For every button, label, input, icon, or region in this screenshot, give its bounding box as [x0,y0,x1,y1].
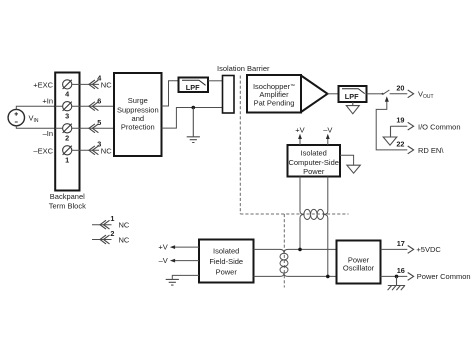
wire LPF2 to switch [367,93,383,95]
junction node [192,106,196,110]
isochopper amplifier U2 [247,75,328,113]
pin 17 +5VDC [381,239,442,254]
transformer T2 (field-side) primary winding and leads [254,249,285,276]
svg-text:2: 2 [65,134,69,143]
+V arrow (computer side) [295,126,304,146]
-V arrow (computer side) [323,126,332,146]
pin 22 RD EN [396,139,444,155]
svg-text:NC: NC [119,235,130,244]
svg-text:Power Common: Power Common [417,272,471,281]
surge suppression block U1 [114,73,162,156]
svg-text:–In: –In [43,129,53,138]
isolation barrier dashed line (vertical lower) [283,214,285,288]
switch S1 [382,90,408,95]
pin 2 NC stub [92,229,130,244]
wire surge upper output to LPF1 [162,81,179,106]
svg-text:Protection: Protection [121,123,155,132]
terminal 3 [55,102,79,121]
svg-text:LPF: LPF [186,83,200,92]
svg-text:17: 17 [397,239,405,248]
junction node bottom wire [326,275,330,279]
svg-text:NC: NC [101,147,112,156]
svg-text:NC: NC [119,221,130,230]
svg-text:3: 3 [65,111,69,120]
terminal 2 [55,124,79,143]
svg-text:22: 22 [396,139,404,148]
isolated field-side power U4 [199,240,254,283]
svg-text:+In: +In [42,96,53,105]
svg-text:–EXC: –EXC [33,146,53,155]
-V arrow (field side) [159,256,199,265]
svg-text:+EXC: +EXC [33,80,53,89]
isolated common triangle under LPF2 [346,102,359,114]
svg-text:Isolation Barrier: Isolation Barrier [217,64,270,73]
svg-text:+V: +V [295,126,304,135]
power oscillator U5 [337,241,381,284]
svg-text:Isolated: Isolated [213,246,239,255]
svg-text:Field-Side: Field-Side [209,257,243,266]
wire amplifier to LPF2 [328,93,339,95]
terminal 4 [63,80,80,99]
pin 6 wire to surge block [79,97,114,111]
voltage source VIN [8,109,39,125]
svg-text:NC: NC [101,81,112,90]
svg-text:Power: Power [303,167,325,176]
filter LPF2 [339,86,367,102]
isolation barrier dashed line (vertical upper) [239,76,241,215]
transformer T2 secondary winding and leads [284,249,337,276]
pin 5 wire to surge block [79,118,114,133]
svg-text:Oscillator: Oscillator [343,264,375,273]
svg-text:+5VDC: +5VDC [416,245,441,254]
svg-text:16: 16 [397,266,405,275]
junction node pin 16 [395,275,399,279]
terminal 1 [63,146,80,165]
svg-text:LPF: LPF [345,92,359,101]
pin 4 NC stub [79,73,112,89]
pin 16 Power Common [381,266,471,281]
svg-text:+V: +V [158,243,167,252]
svg-text:Suppression: Suppression [117,105,159,114]
transformer T1 secondary winding/leads [300,215,328,277]
chassis ground at pin 16 [388,276,406,290]
pin 19 I/O Common [391,116,461,132]
svg-text:–V: –V [159,256,168,265]
svg-text:5: 5 [97,118,101,127]
svg-text:1: 1 [110,214,114,223]
svg-text:2: 2 [110,229,114,238]
junction node top wire [298,248,302,252]
svg-text:I/O Common: I/O Common [418,122,461,131]
wire surge lower output to barrier element [162,108,223,129]
svg-text:Backpanel: Backpanel [50,192,85,201]
wire VIN+ to +In [16,106,55,109]
isolated common triangle right of computer-side power [340,155,360,173]
svg-text:Term Block: Term Block [49,201,86,210]
wire LPF1 to barrier element [208,80,223,82]
svg-text:Computer-Side: Computer-Side [288,158,338,167]
switch control arrow from RD EN [376,96,407,150]
isolated common triangle at pin 19 [383,126,397,145]
svg-text:–V: –V [323,126,332,135]
svg-text:RD EN\: RD EN\ [418,146,444,155]
svg-text:1: 1 [65,156,69,165]
svg-text:20: 20 [396,83,404,92]
backpanel term block [55,73,79,191]
svg-text:Pat Pending: Pat Pending [254,99,295,108]
pin 20 VOUT [396,83,433,100]
svg-text:Surge: Surge [128,96,148,105]
pin 3 NC stub [79,140,112,156]
isolated computer-side power U3 [288,145,341,177]
isolation barrier element [223,76,235,114]
wire VIN- to -In [16,126,55,129]
svg-text:19: 19 [396,116,404,125]
+V arrow (field side) [158,243,199,252]
transformer T1 (computer-side) primary lead/winding [300,177,328,215]
svg-text:6: 6 [97,97,101,106]
svg-text:Isolated: Isolated [301,148,327,157]
ground (field-side power) [166,275,199,285]
svg-text:Power: Power [216,267,238,276]
filter LPF1 [179,78,209,93]
ground (field side) [187,108,200,143]
pin 1 NC stub [92,214,130,229]
isolation barrier dashed line (horizontal) [240,213,348,215]
